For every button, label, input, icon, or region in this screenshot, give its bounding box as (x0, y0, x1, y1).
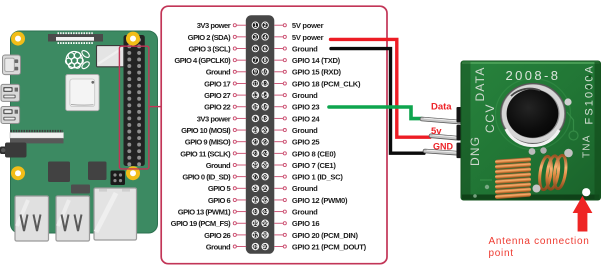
svg-text:GPIO 7 (CE1): GPIO 7 (CE1) (292, 161, 336, 170)
svg-text:12: 12 (262, 81, 268, 87)
camera connector (top) (48, 33, 103, 43)
svg-text:4: 4 (264, 35, 267, 41)
svg-text:GPIO 1 (ID_SC): GPIO 1 (ID_SC) (292, 173, 343, 182)
header plastic block pin 1 (457, 107, 471, 123)
mounting hole top-right (126, 32, 140, 46)
svg-text:36: 36 (262, 221, 268, 227)
svg-text:17: 17 (252, 116, 258, 122)
svg-text:GPIO 14 (TXD): GPIO 14 (TXD) (292, 56, 341, 65)
svg-text:39: 39 (252, 244, 258, 250)
svg-text:26: 26 (262, 163, 268, 169)
Raspberry Pi board (11, 31, 158, 233)
raspberry logo (66, 49, 91, 70)
svg-text:5v: 5v (431, 126, 442, 137)
USB 2.0 port A (15, 196, 49, 241)
svg-text:21: 21 (252, 140, 258, 146)
pin row 8: GPIO 22 / GPIO 23 (pins 15-16) (204, 103, 319, 112)
solder joints (473, 75, 591, 198)
GPIO pin strip (246, 15, 274, 254)
svg-text:GPIO 6: GPIO 6 (208, 196, 231, 205)
svg-text:18: 18 (262, 116, 268, 122)
audio jack (0, 143, 27, 158)
callout link line to table (149, 106, 161, 108)
svg-text:1: 1 (254, 23, 257, 29)
pin row 18: GPIO 19 (PCM_FS) / GPIO 16 (pins 35-36) (171, 219, 320, 228)
pin row 14: GPIO 0 (ID_SD) / GPIO 1 (ID_SC) (pins 27-28) (182, 173, 343, 182)
svg-text:28: 28 (262, 175, 268, 181)
mounting hole bottom-left (11, 166, 25, 180)
svg-text:GPIO 16: GPIO 16 (292, 219, 320, 228)
svg-text:GPIO 10 (MOSI): GPIO 10 (MOSI) (181, 126, 231, 135)
svg-text:3V3 power: 3V3 power (197, 114, 231, 123)
USB-C power port (3, 55, 21, 75)
svg-text:GPIO 12 (PWM0): GPIO 12 (PWM0) (292, 196, 348, 205)
svg-text:8: 8 (264, 58, 267, 64)
svg-text:10: 10 (262, 70, 268, 76)
pin row 16: GPIO 6 / GPIO 12 (PWM0) (pins 31-32) (208, 196, 348, 205)
svg-text:GPIO 22: GPIO 22 (204, 103, 230, 112)
svg-text:5V power: 5V power (292, 21, 324, 30)
svg-text:DNG: DNG (468, 136, 482, 166)
module pin lead 3 (GND) (425, 150, 459, 153)
svg-text:point: point (489, 248, 514, 259)
svg-text:FS1000A: FS1000A (584, 64, 596, 125)
header plastic block pin 3 (457, 143, 471, 159)
SoC chip (66, 75, 99, 111)
svg-text:31: 31 (252, 198, 258, 204)
svg-text:30: 30 (262, 186, 268, 192)
svg-text:22: 22 (262, 140, 268, 146)
svg-text:Ground: Ground (206, 161, 231, 170)
pin row 6: GPIO 17 / GPIO 18 (PCM_CLK) (pins 11-12) (204, 79, 361, 88)
svg-text:GPIO 25: GPIO 25 (292, 138, 321, 147)
wire: GPIO 23 (green) from pin 16 to module DATA (329, 107, 422, 119)
svg-text:35: 35 (252, 221, 258, 227)
svg-text:CCV: CCV (483, 103, 497, 133)
svg-text:16: 16 (262, 105, 268, 111)
svg-text:33: 33 (252, 210, 258, 216)
svg-text:3V3 power: 3V3 power (197, 21, 231, 30)
antenna hole pad (582, 188, 590, 196)
svg-text:40: 40 (262, 244, 268, 250)
antenna arrow (573, 196, 593, 232)
svg-text:29: 29 (252, 186, 258, 192)
air coil L1 (495, 157, 531, 199)
pin row 13: Ground / GPIO 7 (CE1) (pins 25-26) (206, 161, 337, 170)
pin row 20: Ground / GPIO 21 (PCM_DOUT) (pins 39-40) (206, 242, 367, 251)
svg-text:Ground: Ground (292, 208, 318, 217)
USB controller chip (88, 162, 107, 181)
svg-text:5: 5 (254, 46, 257, 52)
svg-text:25: 25 (252, 163, 258, 169)
header plastic block pin 2 (457, 125, 471, 141)
svg-text:Data: Data (431, 101, 452, 112)
svg-text:Ground: Ground (206, 68, 231, 77)
RAM chip (48, 162, 70, 183)
micro HDMI port 2 (1, 107, 20, 124)
GPIO header (40-pin) (124, 35, 145, 166)
svg-text:GPIO 23: GPIO 23 (292, 103, 320, 112)
PoE header (111, 171, 126, 186)
svg-text:5V power: 5V power (292, 33, 324, 42)
svg-text:3: 3 (254, 35, 257, 41)
svg-text:Ground: Ground (292, 91, 318, 100)
svg-text:Ground: Ground (292, 126, 318, 135)
svg-text:GPIO 20 (PCM_DIN): GPIO 20 (PCM_DIN) (292, 231, 359, 240)
FS1000A transmitter PCB (461, 61, 601, 200)
svg-text:6: 6 (264, 46, 267, 52)
mounting hole top-left (11, 32, 25, 46)
svg-text:GPIO 19 (PCM_FS): GPIO 19 (PCM_FS) (171, 219, 231, 228)
pinout table border (161, 6, 387, 264)
svg-text:14: 14 (262, 93, 268, 99)
svg-text:9: 9 (254, 70, 257, 76)
svg-text:GPIO 15 (RXD): GPIO 15 (RXD) (292, 68, 342, 77)
svg-text:Ground: Ground (292, 44, 318, 53)
svg-text:GPIO 4 (GPCLK0): GPIO 4 (GPCLK0) (174, 56, 231, 65)
svg-text:TNA: TNA (582, 134, 593, 158)
svg-text:38: 38 (262, 233, 268, 239)
header callout rectangle (119, 46, 148, 169)
pin row 2: GPIO 2 (SDA) / 5V power (pins 3-4) (188, 33, 324, 42)
pin row 12: GPIO 11 (SCLK) / GPIO 8 (CE0) (pins 23-24) (180, 149, 336, 158)
SAW resonator can (501, 84, 572, 155)
svg-text:GPIO 13 (PWM1): GPIO 13 (PWM1) (178, 208, 231, 217)
svg-text:2: 2 (264, 23, 267, 29)
pin row 17: GPIO 13 (PWM1) / Ground (pins 33-34) (178, 208, 318, 217)
module pin lead 1 (DATA) (422, 118, 459, 122)
svg-text:GPIO 11 (SCLK): GPIO 11 (SCLK) (180, 149, 231, 158)
mounting hole bottom-right (126, 166, 140, 180)
pin row 9: 3V3 power / GPIO 24 (pins 17-18) (197, 114, 321, 123)
svg-text:19: 19 (252, 128, 258, 134)
display connector (bottom-left) (10, 131, 64, 143)
module pin lead 2 (VCC) (431, 135, 459, 138)
pin row 10: GPIO 10 (MOSI) / Ground (pins 19-20) (181, 126, 318, 135)
Ethernet port (94, 188, 137, 240)
wireless module (97, 46, 124, 67)
svg-text:GPIO 24: GPIO 24 (292, 114, 321, 123)
svg-text:GPIO 27: GPIO 27 (204, 91, 230, 100)
svg-text:7: 7 (254, 58, 257, 64)
svg-text:GPIO 8 (CE0): GPIO 8 (CE0) (292, 149, 336, 158)
svg-text:Antenna connection: Antenna connection (489, 236, 590, 247)
svg-text:GPIO 2 (SDA): GPIO 2 (SDA) (188, 33, 231, 42)
pin row 3: GPIO 3 (SCL) / Ground (pins 5-6) (189, 44, 319, 53)
svg-text:15: 15 (252, 105, 258, 111)
svg-text:Ground: Ground (292, 184, 318, 193)
svg-text:GPIO 9 (MISO): GPIO 9 (MISO) (185, 138, 231, 147)
svg-text:13: 13 (252, 93, 258, 99)
svg-text:GPIO 17: GPIO 17 (204, 79, 230, 88)
svg-text:11: 11 (253, 81, 259, 87)
small chip (71, 185, 90, 194)
pin row 11: GPIO 9 (MISO) / GPIO 25 (pins 21-22) (185, 138, 321, 147)
air coil L2 (538, 155, 568, 191)
wire: 5V power (red) from pin 4 to module VCC (331, 39, 431, 137)
svg-text:GND: GND (433, 141, 454, 151)
svg-text:GPIO 26: GPIO 26 (204, 231, 230, 240)
svg-text:32: 32 (262, 198, 268, 204)
pin row 15: GPIO 5 / Ground (pins 29-30) (208, 184, 318, 193)
pin row 1: 3V3 power / 5V power (pins 1-2) (197, 21, 324, 30)
svg-text:2008-8: 2008-8 (506, 68, 561, 83)
caption: Antenna connection point (489, 236, 590, 259)
svg-text:37: 37 (252, 233, 258, 239)
svg-text:GPIO 5: GPIO 5 (208, 184, 232, 193)
svg-text:27: 27 (252, 175, 258, 181)
USB 2.0 port B (56, 196, 90, 241)
pin row 7: GPIO 27 / Ground (pins 13-14) (204, 91, 318, 100)
PCB traces (480, 79, 578, 181)
svg-text:GPIO 0 (ID_SD): GPIO 0 (ID_SD) (182, 173, 231, 182)
svg-text:GPIO 21 (PCM_DOUT): GPIO 21 (PCM_DOUT) (292, 242, 367, 251)
svg-text:GPIO 18 (PCM_CLK): GPIO 18 (PCM_CLK) (292, 79, 361, 88)
svg-text:23: 23 (252, 151, 258, 157)
svg-text:34: 34 (262, 210, 268, 216)
svg-text:20: 20 (262, 128, 268, 134)
svg-text:DATA: DATA (473, 66, 487, 101)
wire: Ground (black) from pin 6 to module GND (331, 49, 424, 154)
svg-text:24: 24 (262, 151, 268, 157)
pin row 4: GPIO 4 (GPCLK0) / GPIO 14 (TXD) (pins 7-8) (174, 56, 340, 65)
micro HDMI port 1 (1, 84, 20, 101)
svg-text:GPIO 3 (SCL): GPIO 3 (SCL) (189, 44, 232, 53)
svg-text:Ground: Ground (206, 242, 231, 251)
pin row 5: Ground / GPIO 15 (RXD) (pins 9-10) (206, 68, 342, 77)
pin row 19: GPIO 26 / GPIO 20 (PCM_DIN) (pins 37-38) (204, 231, 358, 240)
